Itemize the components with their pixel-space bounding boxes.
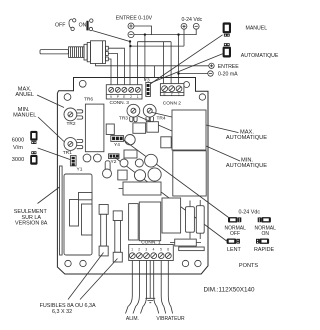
svg-text:1: 1 — [131, 247, 133, 251]
svg-text:FUSIBLES 8A OU 6,3A: FUSIBLES 8A OU 6,3A — [40, 303, 96, 309]
callout to TR1 — [38, 117, 64, 142]
svg-text:E: E — [123, 95, 125, 99]
jumper AUTOMATIQUE icon — [223, 43, 231, 57]
svg-text:Y4: Y4 — [114, 142, 120, 148]
svg-text:E: E — [164, 92, 166, 96]
svg-text:Y1: Y1 — [77, 167, 83, 173]
small component below TR6 — [105, 161, 110, 175]
callout TR3 to MIN AUTOMATIQUE — [137, 116, 240, 161]
wire ground stub — [149, 261, 151, 299]
mounting hole top-left lower — [64, 94, 71, 101]
big rectangle component bottom right — [162, 198, 181, 233]
terminal - (0-10V) — [128, 32, 134, 38]
connector CONN.1 — [129, 245, 174, 261]
resistor block — [124, 150, 137, 158]
jumper icon on (installed) — [86, 19, 93, 31]
capacitor c12 — [148, 168, 161, 181]
jumper header Y2 — [109, 154, 120, 159]
svg-text:Y3: Y3 — [144, 78, 150, 84]
jumper NORMAL ON icon — [258, 217, 271, 222]
svg-text:5: 5 — [160, 247, 162, 251]
wire conn1-5 — [161, 261, 166, 314]
trimmer TR2 — [64, 108, 83, 121]
svg-text:TR3: TR3 — [119, 115, 128, 121]
junction dots — [129, 40, 131, 42]
mounting hole bottom-right 1 — [182, 260, 188, 266]
resistor horizontal bottom — [170, 239, 201, 246]
big rectangle component right upper — [172, 110, 206, 150]
svg-text:6,3 X 32: 6,3 X 32 — [52, 309, 72, 315]
svg-text:2: 2 — [130, 95, 132, 99]
terminal - (0-24) — [193, 23, 199, 29]
jumper RAPIDE icon — [256, 239, 269, 244]
svg-text:CONN. 1: CONN. 1 — [141, 239, 161, 245]
rect bottom right — [179, 247, 205, 251]
capacitor big c7 — [145, 154, 158, 167]
mounting hole top-right upper — [184, 82, 190, 88]
svg-text:1: 1 — [137, 95, 139, 99]
square component — [118, 170, 127, 180]
svg-text:LENT: LENT — [227, 247, 241, 253]
capacitor small c6 — [135, 159, 143, 167]
callout Y2 to LENT — [115, 158, 227, 242]
terminal - (0-20mA) — [208, 71, 213, 76]
wire conn1-6 — [168, 261, 172, 314]
svg-text:TR4: TR4 — [157, 115, 166, 121]
wire conn1-1 — [126, 261, 133, 314]
svg-text:ANUEL: ANUEL — [15, 92, 34, 98]
capacitor c8 below TR6 — [83, 154, 91, 162]
capacitor C1 — [106, 124, 114, 135]
svg-text:ON: ON — [79, 22, 87, 28]
capacitor small c5 — [120, 159, 128, 167]
connector CONN.2 — [160, 84, 184, 97]
wire conn1-4 — [154, 261, 159, 314]
svg-text:OFF: OFF — [55, 22, 65, 28]
svg-text:CONN 2: CONN 2 — [163, 100, 181, 106]
callout V/m jumpers to Y1 — [38, 148, 70, 160]
terminal + (0-20mA) — [209, 63, 214, 68]
svg-text:3000: 3000 — [12, 157, 24, 163]
wire conn1-2 — [133, 261, 139, 314]
ground — [145, 298, 155, 302]
jumper icon 3000 — [30, 151, 37, 164]
jumper icon 6000 — [30, 131, 37, 144]
svg-text:3: 3 — [145, 247, 147, 251]
svg-text:ENTREE 0-10V: ENTREE 0-10V — [116, 16, 153, 22]
svg-text:MANUEL: MANUEL — [246, 26, 268, 32]
capacitor round C4 — [125, 135, 135, 145]
board outline — [57, 78, 208, 275]
callout to TR2 — [37, 95, 64, 108]
svg-text:MANUEL: MANUEL — [13, 112, 36, 118]
callout to fuse2 — [80, 259, 118, 300]
svg-text:2: 2 — [171, 92, 173, 96]
mounting hole bottom-left 1 — [65, 260, 71, 266]
jumper NORMAL OFF icon — [228, 217, 241, 222]
wire conn1-3 — [141, 261, 147, 314]
svg-text:2: 2 — [138, 247, 140, 251]
svg-text:ALIM.: ALIM. — [126, 316, 139, 322]
svg-text:DIM.:112X50X140: DIM.:112X50X140 — [204, 286, 255, 293]
capacitor vertical cv2 — [196, 200, 204, 239]
capacitor C3 — [147, 122, 159, 133]
svg-text:RAPIDE: RAPIDE — [254, 247, 274, 253]
jumper header Y3 — [146, 83, 151, 97]
wire bus — [130, 26, 208, 85]
mounting hole top-right lower — [199, 94, 205, 100]
terminal + (0-24) — [181, 23, 187, 29]
callout TR4 to MAX AUTOMATIQUE — [152, 112, 239, 132]
svg-text:VIBRATEUR: VIBRATEUR — [156, 316, 185, 322]
svg-text:P: P — [117, 95, 119, 99]
big rect above CONN.1 — [139, 202, 160, 241]
svg-text:V/m: V/m — [13, 145, 23, 151]
trimmer TR4 — [143, 104, 156, 122]
capacitor c9 below TR6 — [94, 154, 102, 162]
resistor big horizontal — [119, 182, 162, 195]
svg-text:OFF: OFF — [230, 231, 240, 237]
fuse F1 — [99, 205, 108, 256]
svg-text:AUTOMATIQUE: AUTOMATIQUE — [226, 163, 267, 169]
svg-text:CONN. 3: CONN. 3 — [110, 100, 130, 106]
callout to version strip — [38, 187, 60, 204]
capacitor c10 — [103, 169, 112, 178]
toggle switch S1 — [40, 41, 108, 64]
link strip version 8A — [60, 166, 63, 255]
callout Y4 to NORMAL OFF — [124, 140, 229, 218]
callout to fuse1 — [68, 253, 104, 300]
mounting hole bottom-left 2 — [80, 260, 86, 266]
square component u2 — [161, 137, 171, 148]
jumper header Y1 — [70, 156, 76, 166]
jumper icon off (removed) — [69, 19, 76, 31]
rect component left of conn1 — [129, 204, 139, 240]
jumper LENT icon — [227, 239, 240, 244]
svg-text:0-24 Vdc: 0-24 Vdc — [182, 17, 203, 23]
wire from ON icon to node — [93, 31, 130, 42]
capacitor vertical cv1 — [186, 201, 195, 239]
svg-text:1: 1 — [178, 92, 180, 96]
svg-text:TR2: TR2 — [67, 121, 76, 127]
connector CONN.3 — [106, 85, 142, 99]
svg-text:4: 4 — [153, 247, 155, 251]
svg-text:ON: ON — [262, 231, 270, 237]
svg-text:PONTS: PONTS — [239, 263, 259, 269]
mounting hole bottom-right 2 — [195, 260, 201, 266]
trimmer TR1 — [64, 138, 83, 151]
svg-text:Y2: Y2 — [111, 159, 117, 165]
relay RL1 — [64, 174, 92, 255]
IC TR6 — [85, 104, 104, 152]
svg-text:0-20 mA: 0-20 mA — [218, 72, 238, 78]
mounting hole top-left upper — [79, 80, 86, 87]
svg-text:TR1: TR1 — [63, 150, 72, 156]
wires switch to CONN.3 — [96, 48, 209, 84]
jumper header Y4 — [111, 136, 124, 142]
fuse F2 — [113, 211, 122, 262]
capacitor C2 — [133, 123, 146, 133]
svg-text:ENTREE: ENTREE — [218, 64, 240, 70]
trimmer TR3 — [127, 104, 140, 122]
svg-text:VERSION 8A: VERSION 8A — [15, 220, 48, 226]
svg-text:AUTOMATIQUE: AUTOMATIQUE — [226, 135, 267, 141]
jumper MANUEL icon — [223, 22, 231, 36]
svg-text:6000: 6000 — [12, 138, 24, 144]
svg-text:AUTOMATIQUE: AUTOMATIQUE — [241, 53, 279, 59]
svg-text:TR6: TR6 — [84, 97, 93, 103]
svg-text:6: 6 — [167, 247, 169, 251]
capacitor c11 — [134, 170, 145, 181]
callout Y3 to AUTOMATIQUE — [148, 54, 223, 84]
big rectangle component right lower — [173, 151, 206, 196]
terminal + (0-10V) — [128, 23, 134, 29]
callout Y3 to MANUEL — [148, 35, 223, 86]
svg-text:0-24 Vdc: 0-24 Vdc — [239, 210, 261, 216]
